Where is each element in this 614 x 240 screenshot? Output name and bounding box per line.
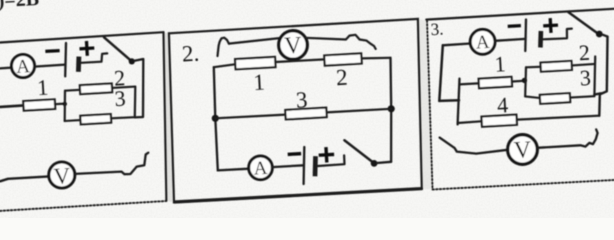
bottom wire to ammeter (panel 2) — [218, 169, 249, 171]
svg-text:1: 1 — [494, 51, 506, 77]
resistor 1 (panel 1) — [23, 99, 55, 110]
switch pivot dot (panel 2) — [371, 160, 378, 167]
battery minus sign (panel 3) — [509, 24, 519, 28]
wire R3 to right edge (panel 3) — [570, 96, 594, 97]
wire to resistor R3 (panel 1) — [65, 119, 81, 122]
resistor 3 (panel 1) — [80, 114, 111, 124]
svg-text:2: 2 — [335, 65, 348, 91]
wire A to battery (panel 2) — [272, 165, 304, 167]
resistor 2 (panel 2) — [324, 53, 362, 65]
wire R2 to right edge (panel 3) — [572, 64, 595, 66]
scan shading between panel 2 and panel 3 — [418, 19, 432, 189]
right junction dot (panel 2) — [388, 105, 395, 112]
battery minus sign (panel 1) — [47, 49, 58, 53]
parallel block right edge (panel 3) — [593, 57, 596, 97]
battery plus sign (panel 2) — [320, 148, 333, 161]
svg-text:3: 3 — [114, 86, 126, 112]
panel 1 top border — [0, 32, 164, 42]
svg-text:V: V — [284, 32, 303, 59]
connector block to rail jog (panel 3) — [594, 93, 601, 94]
battery short thick plate (panel 2) — [313, 156, 318, 176]
svg-text:3.: 3. — [430, 19, 444, 39]
panel 2 border — [169, 19, 422, 202]
svg-text:A: A — [475, 32, 490, 54]
left rail down to inner node (panel 3) — [439, 45, 459, 101]
wire to resistor R3 (panel 3) — [525, 96, 540, 98]
left vertical wire (panel 2) — [214, 67, 218, 170]
wire left rail to ammeter (panel 3) — [443, 44, 471, 46]
right rail (panel 3) — [599, 37, 607, 116]
svg-text:4: 4 — [496, 92, 508, 118]
voltmeter V (panel 2) — [279, 31, 308, 60]
svg-text:1: 1 — [253, 69, 266, 95]
wire A to battery (panel 3) — [495, 39, 525, 41]
wire R2 to right edge (panel 1) — [112, 87, 135, 88]
voltmeter V (panel 3) — [508, 135, 538, 165]
voltmeter V (panel 1) — [49, 162, 75, 189]
wire left edge to resistor R1 (panel 1) — [0, 105, 24, 107]
parallel block right edge (panel 1) — [134, 87, 137, 118]
svg-text:V: V — [513, 137, 532, 164]
switch blade (panel 2) — [344, 140, 374, 163]
panel 2 bottom border thick — [175, 189, 422, 202]
switch blade (panel 1) — [104, 37, 132, 61]
panel 3 bottom dotted border — [433, 180, 614, 190]
switch pivot dot (panel 1) — [129, 58, 135, 64]
resistor 1 (panel 2) — [235, 57, 276, 69]
junction node left of parallel block (panel 1) — [63, 102, 67, 106]
wire switch dot to right rail (panel 2) — [377, 162, 391, 163]
switch pivot dot (panel 3) — [596, 31, 603, 38]
inner node vertical (panel 3) — [458, 79, 460, 125]
wire squiggle to voltmeter (panel 2) — [229, 38, 281, 44]
ammeter A (panel 1) — [12, 55, 35, 78]
ammeter A (panel 3) — [470, 29, 495, 54]
wire left edge to voltmeter V (panel 1) — [0, 176, 49, 181]
resistor 3 (panel 3) — [540, 93, 570, 104]
svg-text:2: 2 — [578, 40, 590, 66]
wire switch dot to right rail (panel 3) — [602, 35, 607, 37]
battery long plate (panel 3) — [524, 20, 527, 52]
resistor 4 (panel 3) — [481, 115, 517, 127]
resistor 2 (panel 1) — [80, 84, 112, 95]
battery short thick plate (panel 1) — [76, 57, 81, 72]
wire node to resistor R1 (panel 3) — [460, 83, 479, 84]
panel 3 top border — [426, 9, 614, 20]
wire R2 to top-right corner (panel 2) — [362, 57, 391, 60]
wire battery to switch contact (panel 3) — [543, 29, 572, 40]
resistor 3 (panel 2) — [285, 108, 326, 120]
wire A to battery (panel 1) — [35, 65, 66, 67]
parallel block left edge (panel 3) — [524, 67, 527, 96]
wire left edge to ammeter A1 — [0, 66, 12, 69]
wire R1 to parallel block (panel 3) — [513, 80, 526, 83]
wire voltmeter to right with hook (panel 3) — [537, 130, 597, 148]
switch blade (panel 3) — [569, 12, 598, 33]
wire R1 to parallel block (panel 1) — [55, 102, 65, 105]
svg-text:1: 1 — [36, 75, 48, 101]
wire R1 to R2 (panel 2) — [276, 59, 324, 62]
wire battery to switch contact (panel 1) — [81, 53, 107, 62]
panel 3 left dotted border — [427, 21, 433, 190]
wire with hook to voltmeter left (panel 3) — [440, 138, 508, 154]
junction dot after R1 (panel 3) — [522, 78, 527, 83]
battery plus sign (panel 3) — [545, 19, 557, 31]
wire node to resistor R4 (panel 3) — [458, 121, 481, 123]
svg-text:A: A — [16, 56, 31, 78]
wire R3 to right dot (panel 2) — [327, 109, 392, 113]
battery minus sign (panel 2) — [289, 152, 299, 156]
resistor 2 (panel 3) — [540, 61, 571, 72]
squiggle wire right of voltmeter (panel 2) — [305, 35, 376, 49]
wire top-left corner to resistor R1 (panel 2) — [214, 64, 235, 67]
panel 1 bottom dotted border — [0, 201, 166, 211]
wire R4 to right rail (panel 3) — [517, 116, 599, 120]
panel 1 right border — [164, 32, 167, 200]
svg-text:3: 3 — [295, 87, 308, 113]
parallel block left edge (panel 1) — [64, 91, 67, 121]
resistor 1 (panel 3) — [479, 77, 512, 88]
wire to resistor R2 (panel 1) — [65, 89, 80, 92]
svg-text:A: A — [253, 158, 268, 180]
wire voltmeter to right with hook (panel 1) — [75, 153, 149, 175]
battery plus sign (panel 1) — [81, 42, 93, 54]
battery long plate (panel 2) — [302, 147, 305, 184]
wire switch to right rail down to resistor network (panel 1) — [135, 59, 144, 117]
wire R3 to right edge (panel 1) — [111, 117, 135, 118]
wire left dot to resistor R3 (panel 2) — [215, 115, 285, 119]
battery long plate (panel 1) — [64, 43, 67, 76]
svg-text:V: V — [53, 163, 71, 189]
wire battery to switch contact (panel 2) — [318, 155, 345, 166]
svg-text:3: 3 — [579, 65, 591, 91]
squiggle wire left of voltmeter (panel 2) — [218, 38, 229, 56]
wire to resistor R2 (panel 3) — [526, 66, 540, 69]
right vertical wire (panel 2) — [389, 58, 392, 162]
ammeter A (panel 2) — [249, 156, 273, 180]
svg-text:2.: 2. — [181, 41, 200, 67]
scan shading between panel 1 and panel 2 — [165, 33, 175, 202]
left junction dot (panel 2) — [212, 115, 219, 122]
battery short thick plate (panel 3) — [538, 31, 543, 48]
